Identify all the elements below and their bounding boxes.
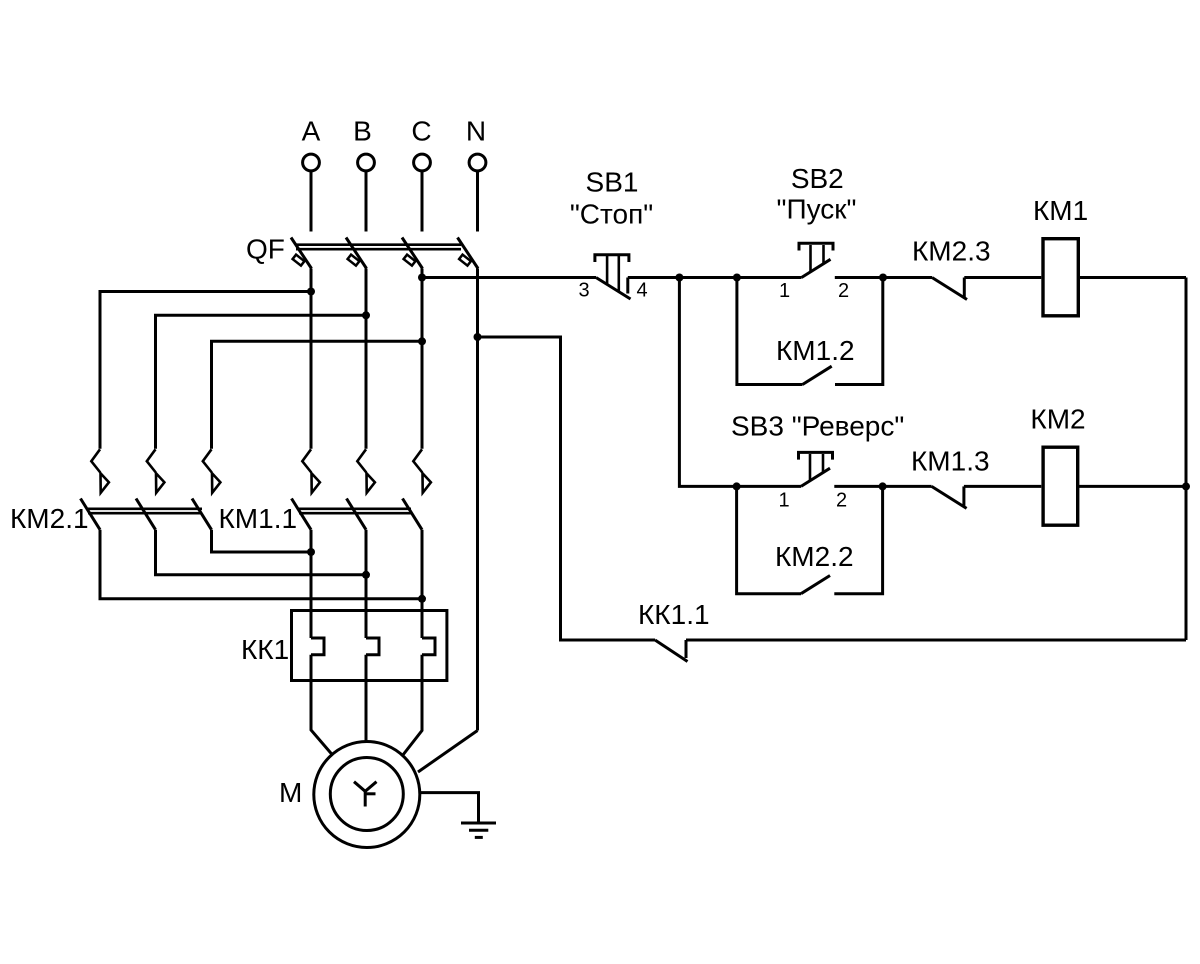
node N branch xyxy=(474,333,482,341)
wire KM1.3 to KM2 coil xyxy=(964,485,1041,488)
svg-text:КМ1.1: КМ1.1 xyxy=(219,503,298,534)
svg-text:КК1: КК1 xyxy=(241,634,289,665)
contact KM1.3 NC contact xyxy=(932,486,967,508)
svg-text:"Стоп": "Стоп" xyxy=(570,199,653,230)
svg-text:SB3 "Реверс": SB3 "Реверс" xyxy=(731,411,904,442)
terminal N xyxy=(466,116,486,232)
wire KK1.1 to right bus xyxy=(686,639,1186,642)
wire feed A to KM2.1 pole 1 xyxy=(100,292,311,449)
contactor KM2.1 pole 3 xyxy=(192,449,220,529)
node crossover 1 xyxy=(418,595,426,603)
contact KM2.2 NO contact xyxy=(801,576,830,594)
svg-text:C: C xyxy=(411,116,431,147)
pushbutton SB2 actuator xyxy=(799,243,833,271)
svg-text:КМ2.1: КМ2.1 xyxy=(10,503,89,534)
motor M star winding symbol xyxy=(354,782,377,807)
contact KM1.2 branch wires xyxy=(737,278,883,385)
thermal relay KK1 heater 2 xyxy=(366,638,379,655)
wire SB1 node to SB3 xyxy=(679,278,801,487)
svg-text:КМ2: КМ2 xyxy=(1030,404,1085,435)
svg-text:N: N xyxy=(466,116,486,147)
node crossover 3 xyxy=(307,548,315,556)
svg-text:2: 2 xyxy=(836,490,847,512)
wire SB1 to SB2 xyxy=(628,276,802,279)
pushbutton SB3 NO contact xyxy=(801,468,830,486)
breaker QF pole C xyxy=(402,238,423,269)
ground xyxy=(461,823,496,837)
node crossover 2 xyxy=(362,571,370,579)
svg-text:SB1: SB1 xyxy=(586,166,639,197)
contactor KM1.1 tie bar xyxy=(299,509,411,513)
wire feed C to KM2.1 pole 3 xyxy=(212,341,423,449)
svg-text:2: 2 xyxy=(838,280,849,302)
wire phase B down from QF xyxy=(365,269,368,449)
pushbutton SB3 actuator xyxy=(799,452,833,480)
svg-text:КМ1.3: КМ1.3 xyxy=(911,446,990,477)
wire KM2.1 pole 3 output crossover xyxy=(212,530,312,552)
node SB3 input xyxy=(733,482,741,490)
terminal B xyxy=(353,116,374,232)
wire KM1.1 pole 1 to KK1 xyxy=(310,530,313,638)
contact KM1.2 NO contact xyxy=(803,366,832,384)
svg-text:QF: QF xyxy=(246,234,285,265)
contactor KM2.1 pole 1 xyxy=(81,449,109,529)
svg-text:КМ1.2: КМ1.2 xyxy=(776,335,855,366)
wire phase A down from QF xyxy=(310,269,313,449)
motor M inner circle xyxy=(330,758,403,831)
thermal relay KK1 heater 3 xyxy=(422,638,435,655)
svg-text:КМ1: КМ1 xyxy=(1033,195,1088,226)
node right bus KM2 xyxy=(1182,482,1190,490)
terminal C xyxy=(411,116,431,232)
contact KK1.1 NC contact xyxy=(655,640,688,662)
svg-text:КК1.1: КК1.1 xyxy=(638,599,710,630)
svg-text:"Пуск": "Пуск" xyxy=(777,194,857,225)
breaker QF tie bar xyxy=(296,245,461,250)
wire feed B to KM2.1 pole 2 xyxy=(156,315,367,449)
wire KM1.1 pole 2 to KK1 xyxy=(365,530,368,638)
node SB2 output xyxy=(879,274,887,282)
svg-text:B: B xyxy=(353,116,372,147)
wire KM1.1 pole 3 to KK1 xyxy=(421,530,424,638)
wire KK1 heater 3 to motor xyxy=(403,655,423,756)
pushbutton SB2 NO contact xyxy=(802,259,831,277)
node A feed xyxy=(307,288,315,296)
pushbutton SB1 actuator xyxy=(595,255,629,292)
contact KM2.2 branch wires xyxy=(737,486,883,593)
wire KM1 coil to right bus xyxy=(1080,276,1186,279)
svg-text:КМ2.3: КМ2.3 xyxy=(912,236,991,267)
contact KM2.3 NC contact xyxy=(932,278,967,300)
breaker QF pole B xyxy=(346,238,367,269)
contactor KM1.1 pole 2 xyxy=(347,449,375,529)
svg-text:М: М xyxy=(279,777,302,808)
wire N to motor star point xyxy=(418,731,478,773)
node C control tap xyxy=(418,274,426,282)
node SB3 output xyxy=(879,482,887,490)
contactor KM2.1 tie bar xyxy=(88,509,202,513)
svg-text:1: 1 xyxy=(778,490,789,512)
svg-text:3: 3 xyxy=(578,280,589,302)
wire C phase to SB1 xyxy=(422,276,596,279)
wire KM2.1 pole 1 output crossover xyxy=(100,530,422,599)
node B feed xyxy=(362,311,370,319)
wire N down from QF xyxy=(476,269,479,731)
terminal A xyxy=(302,116,321,232)
svg-text:1: 1 xyxy=(779,280,790,302)
motor M outer circle xyxy=(314,742,420,848)
breaker QF pole A xyxy=(291,238,312,269)
coil KM1 xyxy=(1043,239,1078,316)
wire right bus xyxy=(1185,278,1188,641)
wire KM2.3 to KM1 coil xyxy=(964,276,1041,279)
wire SB3 to KM1.3 xyxy=(834,485,931,488)
breaker QF pole N xyxy=(458,238,479,269)
wire KM2 coil to right bus xyxy=(1079,485,1186,488)
svg-text:КМ2.2: КМ2.2 xyxy=(775,541,854,572)
thermal relay KK1 box xyxy=(292,611,447,681)
node after SB1 xyxy=(675,274,683,282)
wire phase C down from QF xyxy=(421,269,424,449)
svg-text:A: A xyxy=(302,116,321,147)
pushbutton SB1 NC contact xyxy=(596,278,631,300)
wire KK1 heater 1 to motor xyxy=(311,655,333,755)
contactor KM2.1 pole 2 xyxy=(136,449,164,529)
contactor KM1.1 pole 1 xyxy=(292,449,320,529)
node C feed xyxy=(418,337,426,345)
node SB2 input xyxy=(733,274,741,282)
svg-text:4: 4 xyxy=(636,280,647,302)
wire KK1 heater 2 to motor xyxy=(365,655,368,741)
coil KM2 xyxy=(1043,447,1078,525)
wire motor to ground xyxy=(421,793,479,822)
wire KM2.1 pole 2 output crossover xyxy=(156,530,367,575)
contactor KM1.1 pole 3 xyxy=(403,449,431,529)
svg-text:SB2: SB2 xyxy=(791,163,844,194)
wire SB2 to KM2.3 xyxy=(835,276,932,279)
wire N branch to KK1.1 xyxy=(478,337,656,640)
thermal relay KK1 heater 1 xyxy=(311,638,324,655)
